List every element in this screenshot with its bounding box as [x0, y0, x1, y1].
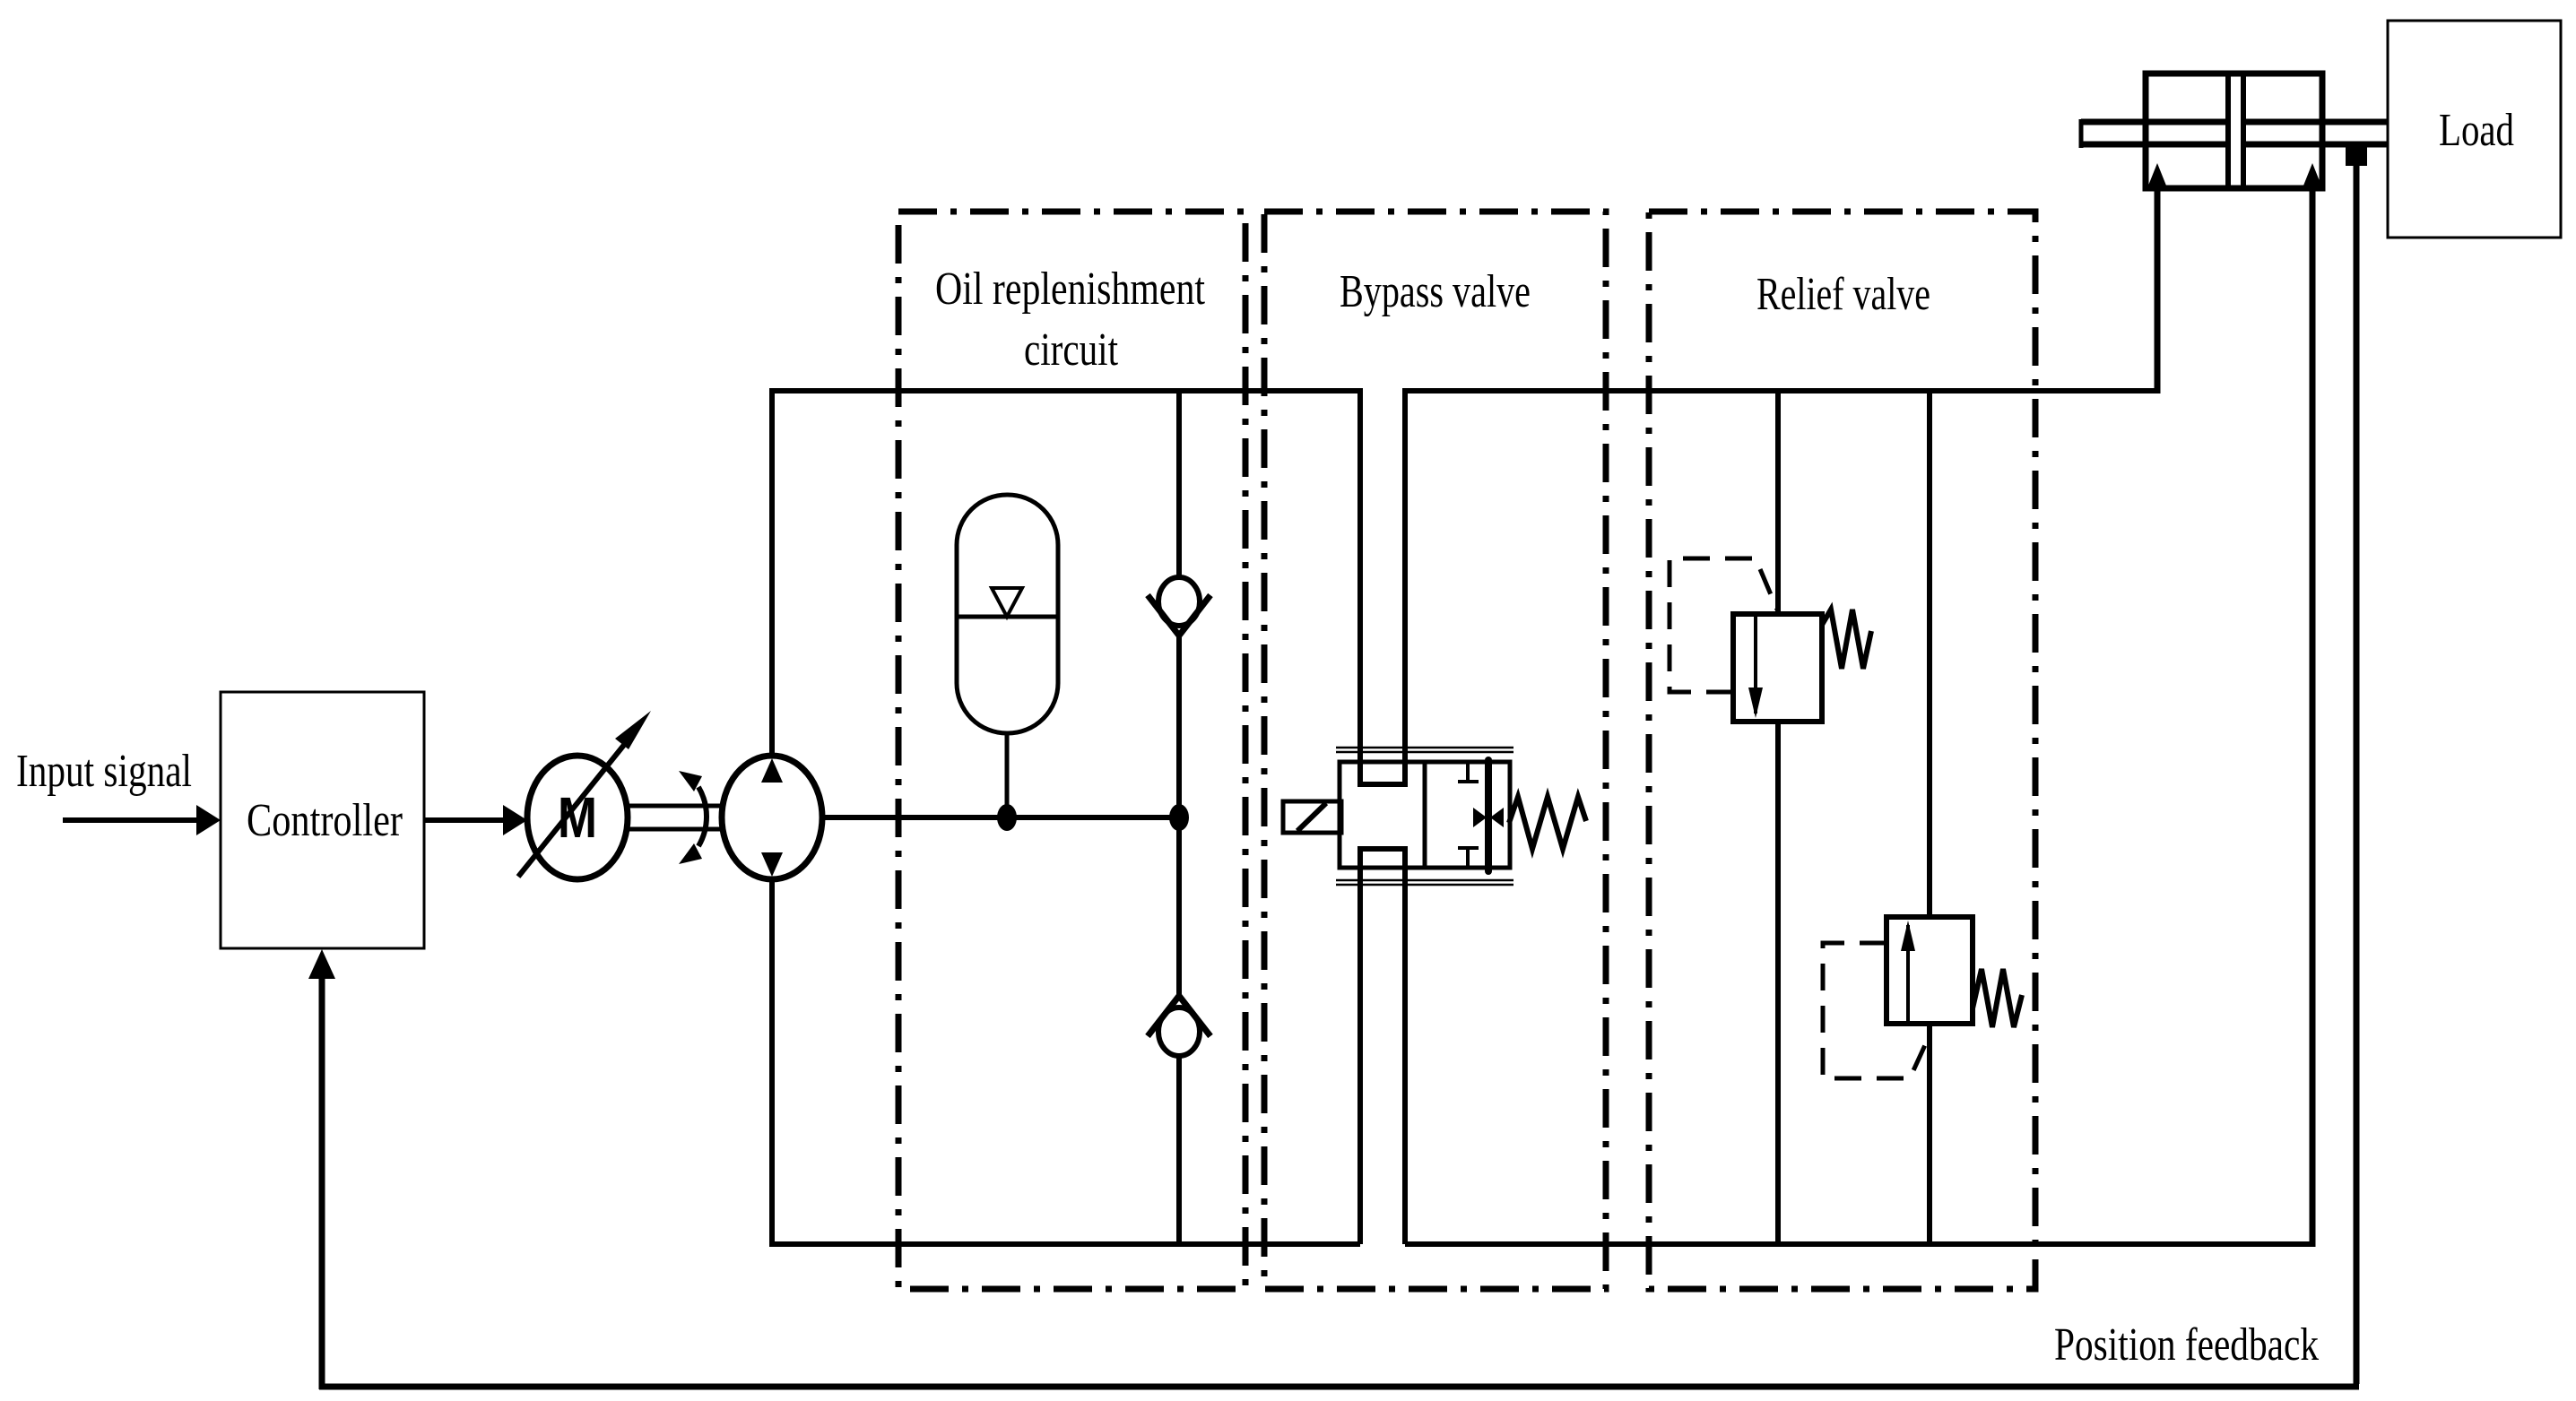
svg-text:Load: Load: [2439, 105, 2514, 156]
relief valve RV2 outlet wire: [1927, 1024, 1932, 1244]
wire position feedback up to controller: [308, 949, 335, 1389]
bypass valve blocked port marks: [1458, 762, 1479, 868]
relief valve RV2 body: [1886, 917, 1973, 1024]
wire position feedback bottom: [319, 1384, 2359, 1390]
pump top triangle: [761, 758, 783, 783]
relief valve RV2 spring: [1973, 969, 2022, 1027]
controller box: [221, 692, 424, 948]
cylinder left port arrow: [2148, 163, 2166, 186]
motor M1 circle: [527, 756, 628, 879]
pump bottom triangle: [761, 852, 783, 877]
cylinder piston: [2228, 74, 2243, 188]
wire check valve branch upper: [1176, 391, 1182, 578]
accumulator A1: [957, 495, 1058, 733]
node junction dot A: [997, 804, 1017, 831]
svg-text:circuit: circuit: [1024, 324, 1118, 376]
svg-text:Controller: Controller: [247, 795, 403, 846]
bypass valve spring: [1509, 797, 1586, 849]
hydraulic cylinder body: [2146, 74, 2322, 188]
wire controller output to motor: [424, 805, 527, 835]
wire input-signal arrow into controller: [63, 805, 221, 835]
bypass valve dash-dot box: [1264, 212, 1606, 1289]
wire position feedback down: [2354, 166, 2360, 1384]
wire bottom rail left segment: [769, 1241, 1360, 1247]
wire top rail left segment: [769, 388, 1360, 393]
bypass valve solenoid: [1283, 801, 1341, 833]
check valve CV1: [1148, 577, 1210, 636]
motor variable displacement arrow: [518, 711, 651, 877]
node junction dot B: [1169, 804, 1189, 831]
wire bottom rail right segment: [1405, 1241, 2312, 1247]
svg-text:Input signal: Input signal: [16, 746, 192, 797]
svg-text:Oil replenishment: Oil replenishment: [935, 264, 1205, 315]
relief valve RV2 pilot dashed line: [1823, 943, 1930, 1078]
pump P1 circle: [722, 756, 822, 879]
wire cylinder right port: [2310, 188, 2316, 1247]
relief valve RV1 body: [1733, 614, 1822, 722]
cylinder rod: [2081, 119, 2388, 148]
bypass valve proportional lines: [1336, 748, 1514, 885]
bypass valve V1 body: [1340, 762, 1510, 868]
svg-text:Bypass valve: Bypass valve: [1340, 266, 1531, 317]
svg-text:Relief valve: Relief valve: [1756, 269, 1930, 320]
wire pump outlet horizontal: [822, 815, 1179, 820]
wire pump top to rail: [769, 391, 775, 756]
position sensor block: [2346, 143, 2367, 166]
shaft rotation double arrow: [679, 771, 707, 864]
wire check valve branch lower: [1176, 1056, 1182, 1244]
wire top rail right segment: [1405, 388, 2157, 393]
bypass valve right position throttle path: [1473, 760, 1504, 871]
wire cylinder left port: [2155, 188, 2161, 393]
svg-text:Position feedback: Position feedback: [2054, 1319, 2319, 1371]
relief valve dash-dot box: [1649, 212, 2035, 1289]
wire pump bottom to bottom rail: [769, 879, 775, 1244]
shaft between motor and pump: [627, 806, 723, 829]
wire check valve middle: [1176, 636, 1182, 996]
bypass valve top port tube: [1357, 388, 1408, 784]
check valve CV2: [1148, 996, 1210, 1056]
accumulator stem wire: [1005, 733, 1010, 817]
relief valve RV1 outlet wire: [1775, 722, 1781, 1244]
relief valve RV2 inlet wire: [1927, 391, 1932, 917]
relief valve RV1 spring: [1822, 610, 1871, 669]
bypass valve bottom port tube: [1357, 849, 1408, 1244]
relief valve RV1 pilot dashed line: [1670, 558, 1777, 692]
load box: [2388, 21, 2561, 238]
relief valve RV1 inlet wire: [1775, 391, 1781, 614]
oil replenishment dash-dot box: [898, 212, 1245, 1289]
cylinder right port arrow: [2303, 163, 2321, 186]
